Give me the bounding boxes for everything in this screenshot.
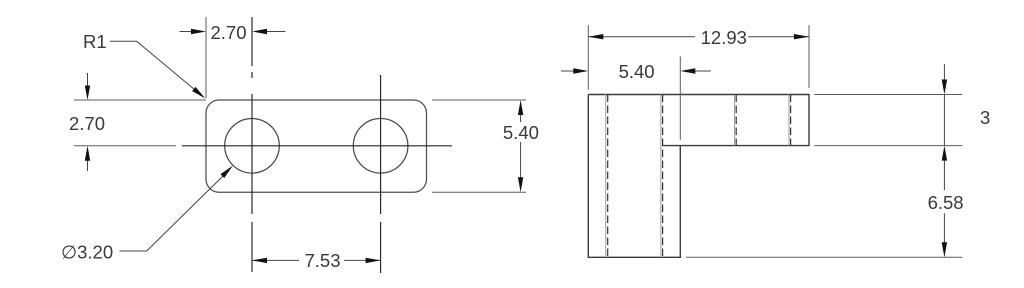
dimension 3 (plate thickness) xyxy=(942,64,991,146)
L-profile outline xyxy=(588,95,809,258)
hole 2 circle xyxy=(353,119,408,174)
dimension 12.93 (overall length) xyxy=(588,25,809,90)
svg-text:2.70: 2.70 xyxy=(210,22,246,43)
hidden line hole 1 right edge xyxy=(661,95,663,258)
svg-text:2.70: 2.70 xyxy=(69,113,105,134)
svg-text:5.40: 5.40 xyxy=(619,61,655,82)
hole 1 circle xyxy=(225,119,280,174)
svg-text:6.58: 6.58 xyxy=(928,192,964,213)
horizontal centerline through holes xyxy=(182,145,452,147)
hidden line hole 2 left edge xyxy=(735,95,737,146)
dimension 7.53 (hole spacing) xyxy=(252,250,381,271)
svg-text:3: 3 xyxy=(980,107,990,128)
vertical centerline hole 1 xyxy=(251,17,253,272)
svg-text:R1: R1 xyxy=(83,31,107,52)
leader diameter 3.20 (hole size callout) xyxy=(61,166,233,263)
leader R1 (corner radius callout) xyxy=(83,31,205,99)
svg-text:7.53: 7.53 xyxy=(304,250,340,271)
extension line hole centerline (left, y=145.8) xyxy=(74,145,176,147)
dimension 5.40 (leg width) xyxy=(561,57,711,140)
dimension 2.70 (top, hole 1 offset) xyxy=(180,17,286,98)
dimension 6.58 (leg drop) xyxy=(928,146,964,258)
extension line top edge (left of plate, y=100) xyxy=(74,99,206,101)
hidden line hole 2 right edge xyxy=(789,95,791,146)
dimension 5.40 (left view height) xyxy=(503,100,539,192)
vertical centerline hole 2 xyxy=(380,75,382,273)
plate outline (rounded rectangle) xyxy=(206,100,427,192)
svg-text:∅3.20: ∅3.20 xyxy=(61,242,113,263)
svg-text:12.93: 12.93 xyxy=(701,27,747,48)
hidden line hole 1 left edge xyxy=(606,95,608,258)
dimension 2.70 (left, vertical) xyxy=(69,73,105,171)
svg-text:5.40: 5.40 xyxy=(503,122,539,143)
extension lines for 3 and 6.58 xyxy=(686,95,962,258)
extension lines right of plate for 5.40 xyxy=(432,100,526,192)
